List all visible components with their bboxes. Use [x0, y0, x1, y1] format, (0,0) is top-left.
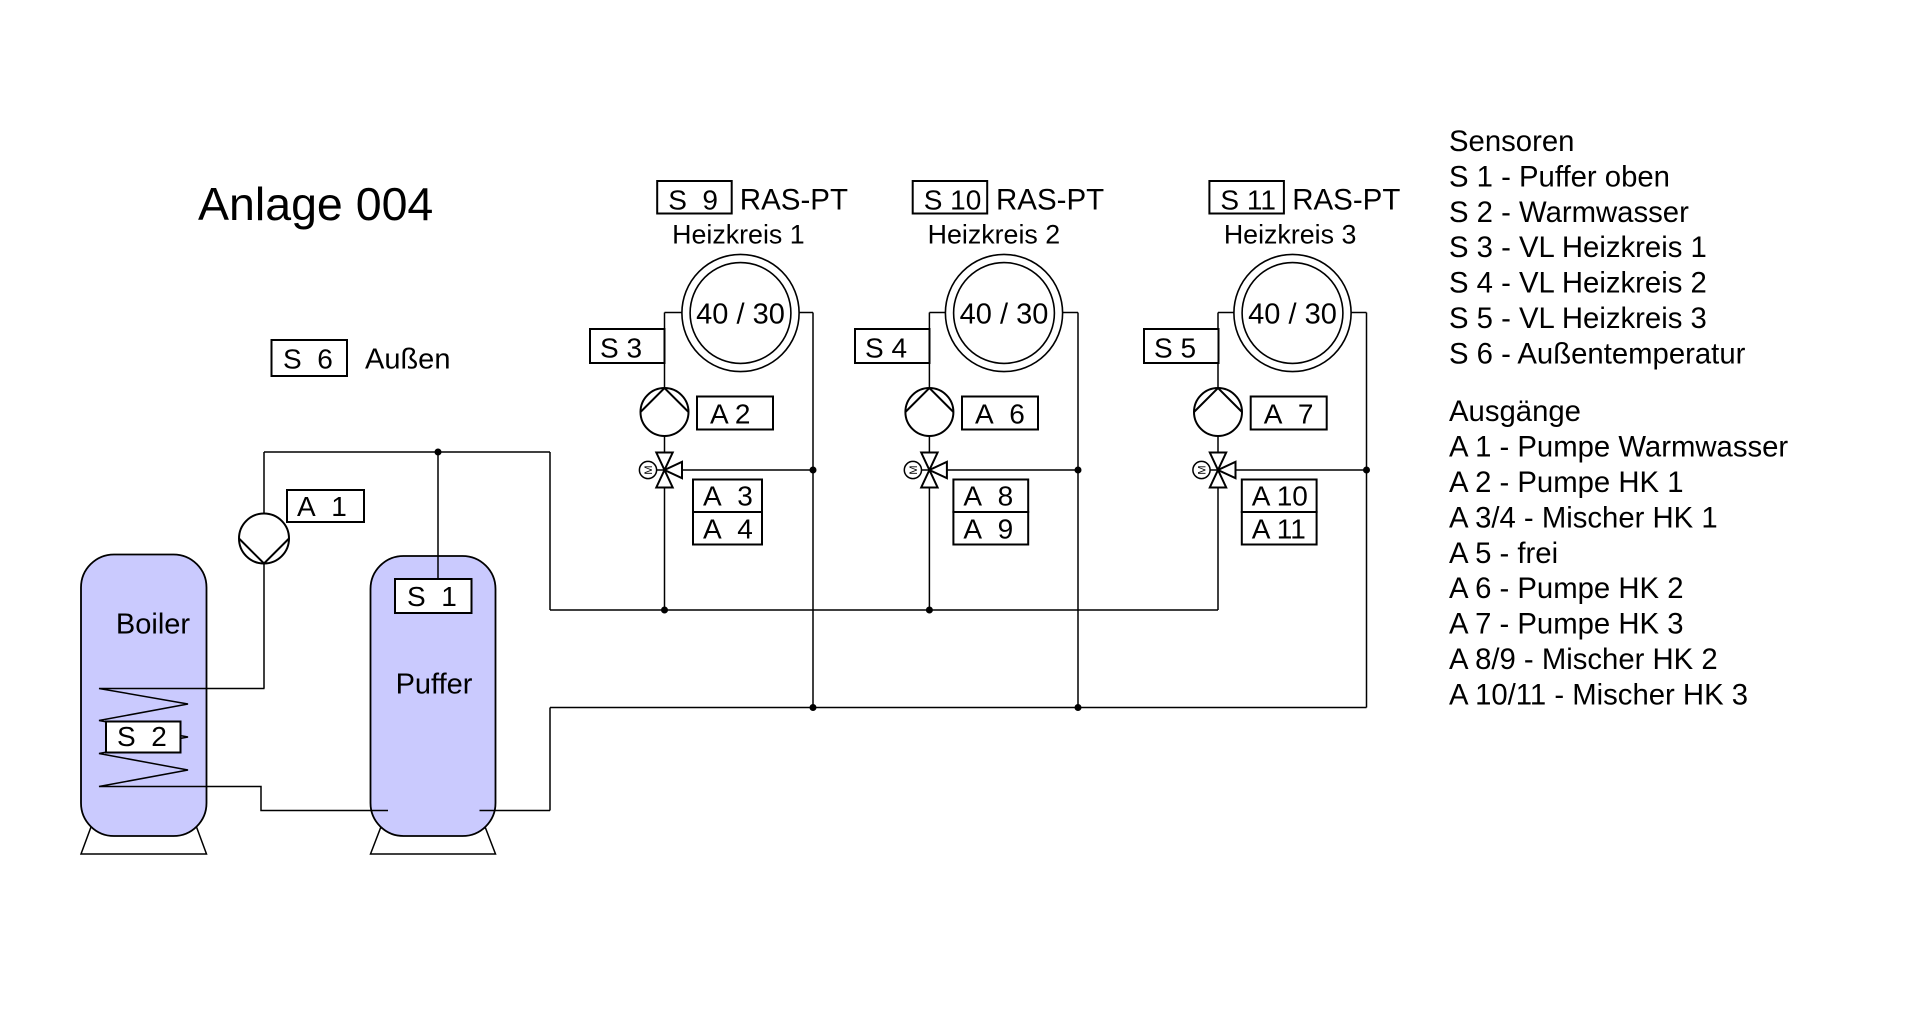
output box pump HK2 [962, 397, 1038, 430]
wire HK1 pump to valve [664, 436, 666, 453]
junction HK2 bypass / return pipe [1075, 467, 1082, 474]
svg-text:S 11: S 11 [1220, 185, 1276, 216]
coil heat exchanger in boiler with return to puffer [99, 689, 388, 811]
svg-text:S 10: S 10 [924, 185, 982, 216]
output box pump HK1 [697, 397, 773, 430]
wire HK1 supply pipe upper [664, 313, 666, 389]
sensor box S 11 [1209, 181, 1284, 216]
wire HK1 top connector (behind dial) [665, 312, 814, 314]
sensor box S 9 [657, 181, 732, 216]
svg-text:A 10/11 - Mischer HK 3: A 10/11 - Mischer HK 3 [1449, 679, 1748, 712]
junction HK1 bypass / return pipe [810, 467, 817, 474]
dial RAS-PT HK1 40/30 [682, 254, 799, 371]
output box A 3 [693, 480, 762, 513]
output box A 4 [693, 512, 762, 545]
sensor box S 6 outdoor [272, 340, 348, 376]
sensor box S 2 boiler [106, 721, 181, 753]
svg-text:S 3 - VL Heizkreis 1: S 3 - VL Heizkreis 1 [1449, 231, 1707, 264]
wire HK3 valve bypass to return pipe [1236, 469, 1367, 471]
svg-text:S 3: S 3 [600, 333, 642, 364]
junction HK3 bypass / return pipe [1363, 467, 1370, 474]
svg-text:S 5 - VL Heizkreis 3: S 5 - VL Heizkreis 3 [1449, 302, 1707, 335]
dial RAS-PT HK3 40/30 [1234, 254, 1351, 371]
svg-text:A 7: A 7 [1264, 398, 1314, 429]
svg-text:40 / 30: 40 / 30 [696, 299, 785, 331]
sensor box S 1 puffer top [395, 579, 472, 613]
svg-text:RAS-PT: RAS-PT [996, 184, 1104, 217]
wire HK2 top connector (behind dial) [929, 312, 1078, 314]
svg-text:Anlage 004: Anlage 004 [198, 178, 433, 230]
boiler stand [81, 827, 207, 854]
svg-text:Puffer: Puffer [396, 669, 473, 701]
svg-text:S 6: S 6 [283, 344, 333, 375]
output box A 11 [1242, 512, 1317, 545]
wire HK2 valve bypass to return pipe [947, 469, 1078, 471]
svg-text:A 1: A 1 [297, 491, 347, 522]
svg-text:RAS-PT: RAS-PT [1292, 184, 1400, 217]
svg-text:40 / 30: 40 / 30 [960, 299, 1049, 331]
tank Boiler [81, 555, 207, 837]
output box A 10 [1242, 480, 1317, 513]
wire HK3 return pipe [1366, 313, 1368, 708]
svg-text:A 8/9 - Mischer HK 2: A 8/9 - Mischer HK 2 [1449, 643, 1718, 676]
output box A 9 [953, 512, 1028, 545]
svg-text:A 3/4 - Mischer HK 1: A 3/4 - Mischer HK 1 [1449, 501, 1718, 534]
svg-text:A 11: A 11 [1252, 513, 1306, 544]
svg-text:RAS-PT: RAS-PT [740, 184, 848, 217]
wire HK2 supply pipe upper [928, 313, 930, 389]
wire HK2 pump to valve [928, 436, 930, 453]
puffer stand [371, 828, 496, 854]
tank Puffer [371, 556, 496, 836]
junction supply HK2 [926, 607, 933, 614]
svg-text:S 9: S 9 [668, 185, 718, 216]
svg-text:M: M [643, 465, 655, 474]
output box A 8 [953, 480, 1028, 513]
wire HK3 supply pipe upper [1217, 313, 1219, 389]
svg-text:A 4: A 4 [703, 513, 753, 544]
sensor box S 10 [913, 181, 988, 216]
wire HK1 valve bypass to return pipe [682, 469, 813, 471]
svg-text:Ausgänge: Ausgänge [1449, 395, 1581, 428]
wire pump A1 to coil top [263, 563, 265, 689]
wire return line from heating circuits [550, 707, 1367, 709]
svg-text:A 3: A 3 [703, 481, 753, 512]
sensor box S 4 VL Heizkreis 2 [855, 329, 930, 364]
svg-text:Heizkreis 2: Heizkreis 2 [928, 220, 1061, 250]
svg-text:40 / 30: 40 / 30 [1248, 299, 1337, 331]
svg-text:S 5: S 5 [1154, 333, 1196, 364]
pump A1 [239, 514, 289, 564]
wire HK2 valve down to supply line [928, 488, 930, 611]
mixing valve HK1 with motor M [639, 453, 682, 488]
svg-text:A 6 - Pumpe HK 2: A 6 - Pumpe HK 2 [1449, 572, 1684, 605]
wire supply drop [549, 452, 551, 610]
svg-text:Heizkreis 1: Heizkreis 1 [672, 220, 805, 250]
svg-text:M: M [1197, 465, 1209, 474]
svg-text:S 2: S 2 [117, 721, 167, 752]
svg-text:Boiler: Boiler [116, 609, 190, 641]
svg-text:M: M [908, 465, 920, 474]
svg-text:Außen: Außen [365, 344, 450, 376]
wire S1 riser into Puffer [437, 452, 439, 579]
wire return into puffer bottom [480, 810, 551, 812]
svg-text:A 2 - Pumpe HK 1: A 2 - Pumpe HK 1 [1449, 466, 1684, 499]
wire return drop [549, 708, 551, 811]
svg-text:S 4 - VL Heizkreis 2: S 4 - VL Heizkreis 2 [1449, 267, 1707, 300]
svg-text:A 2: A 2 [710, 398, 750, 429]
legend sensors [1449, 125, 1746, 371]
svg-text:A 8: A 8 [963, 481, 1013, 512]
svg-text:S 4: S 4 [865, 333, 907, 364]
svg-text:Sensoren: Sensoren [1449, 125, 1574, 158]
svg-text:S 1: S 1 [407, 581, 457, 612]
wire HK1 valve down to supply line [664, 488, 666, 611]
pump HK3 [1194, 388, 1242, 436]
svg-text:Heizkreis 3: Heizkreis 3 [1224, 220, 1357, 250]
svg-text:S 6 - Außentemperatur: S 6 - Außentemperatur [1449, 338, 1746, 371]
pump HK1 [641, 388, 689, 436]
svg-text:S 2 - Warmwasser: S 2 - Warmwasser [1449, 196, 1689, 229]
dial RAS-PT HK2 40/30 [945, 254, 1062, 371]
mixing valve HK3 with motor M [1193, 453, 1236, 488]
wire top header from pump A1 to supply drop [264, 451, 550, 453]
wire HK1 return pipe [812, 313, 814, 708]
svg-text:A 7 - Pumpe HK 3: A 7 - Pumpe HK 3 [1449, 608, 1684, 641]
junction return HK1 [810, 704, 817, 711]
sensor box S 5 VL Heizkreis 3 [1144, 329, 1219, 364]
junction supply HK1 [661, 607, 668, 614]
wire HK3 pump to valve [1217, 436, 1219, 453]
svg-text:S 1 - Puffer oben: S 1 - Puffer oben [1449, 160, 1670, 193]
mixing valve HK2 with motor M [904, 453, 947, 488]
svg-text:A 10: A 10 [1252, 481, 1308, 512]
legend outputs [1449, 395, 1788, 712]
pump HK2 [905, 388, 953, 436]
wire supply line to heating circuits [550, 609, 1218, 611]
svg-text:A 9: A 9 [963, 513, 1013, 544]
output box pump HK3 [1251, 397, 1327, 430]
sensor box S 3 VL Heizkreis 1 [590, 329, 665, 364]
wire HK2 return pipe [1077, 313, 1079, 708]
wire HK3 top connector (behind dial) [1218, 312, 1367, 314]
svg-text:A 1 - Pumpe Warmwasser: A 1 - Pumpe Warmwasser [1449, 430, 1788, 463]
junction return HK2 [1075, 704, 1082, 711]
output box A 1 [287, 490, 364, 522]
junction top header / S1 riser [435, 449, 442, 456]
wire pump A1 riser top [263, 452, 265, 514]
wire HK3 valve down to supply line [1217, 488, 1219, 611]
svg-text:A 5 - frei: A 5 - frei [1449, 537, 1558, 570]
svg-text:A 6: A 6 [975, 398, 1025, 429]
